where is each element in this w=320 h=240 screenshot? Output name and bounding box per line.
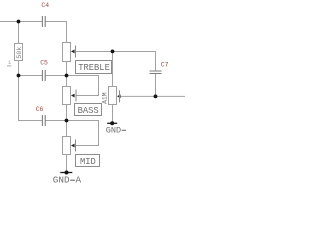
wire rail2: node B to C5 [19, 75, 43, 77]
svg-text:C5: C5 [40, 60, 48, 67]
node D junction (treble wiper rail / U4 top) [111, 50, 115, 54]
wire TREBLE wiper rail to C7 corner [76, 52, 156, 72]
wire MID pot bottom pin to GND_A [66, 155, 68, 173]
potentiometer U4 A1M [102, 87, 121, 105]
svg-text:50k: 50k [16, 47, 23, 59]
capacitor C4 [41, 2, 49, 27]
wire TREBLE pot bottom pin [66, 62, 68, 76]
wire rail3: C6 to corner, down, to MID wiper [46, 121, 99, 146]
svg-text:MID: MID [80, 157, 96, 167]
node C junction (treble bottom / bass top) [65, 74, 69, 78]
ground GND_A [53, 171, 82, 186]
potentiometer BASS [63, 87, 77, 105]
wire MID pot top pin [66, 121, 68, 137]
potentiometer TREBLE [63, 43, 76, 62]
node E junction (C7 / U4 wiper out) [154, 95, 158, 99]
wire BASS pot top pin [66, 76, 68, 87]
svg-text:BASS: BASS [78, 106, 99, 116]
capacitor C6 [36, 106, 46, 126]
ground GND_ [106, 121, 126, 135]
wire U4 wiper to right edge [120, 95, 186, 97]
resistor R1 50k [7, 44, 23, 67]
wire U4 bottom pin to GND_ [112, 105, 114, 124]
svg-text:C4: C4 [41, 2, 49, 9]
svg-text:GND: GND [106, 126, 121, 136]
wire top rail right to TREBLE pot top [46, 22, 67, 43]
wire rail2: C5 to corner, down, to BASS wiper [46, 76, 99, 96]
wire BASS pot bottom pin [66, 105, 68, 121]
potentiometer MID [63, 137, 76, 155]
capacitor C5 [40, 60, 48, 82]
wire C7 bottom to node E [155, 74, 157, 97]
label box MID [76, 155, 100, 168]
svg-text:A1M: A1M [102, 92, 109, 104]
svg-text:GND: GND [53, 174, 70, 183]
node A junction [17, 20, 21, 24]
label box TREBLE [76, 61, 112, 74]
wire R bottom down left side to rail3 corner, to C6 [19, 61, 43, 121]
svg-text:C7: C7 [161, 61, 169, 68]
wire top rail left [0, 21, 42, 23]
svg-text:1: 1 [8, 60, 11, 66]
capacitor C7 [150, 61, 169, 73]
svg-text:A: A [76, 174, 82, 183]
wire from node A down to R top [18, 22, 20, 44]
label box BASS [75, 104, 102, 117]
svg-text:C6: C6 [36, 106, 44, 113]
node B junction [17, 74, 21, 78]
node F junction (bass bottom / rail3) [65, 119, 69, 123]
svg-text:TREBLE: TREBLE [78, 63, 110, 73]
wire node D down to pot U4 top [112, 52, 114, 87]
